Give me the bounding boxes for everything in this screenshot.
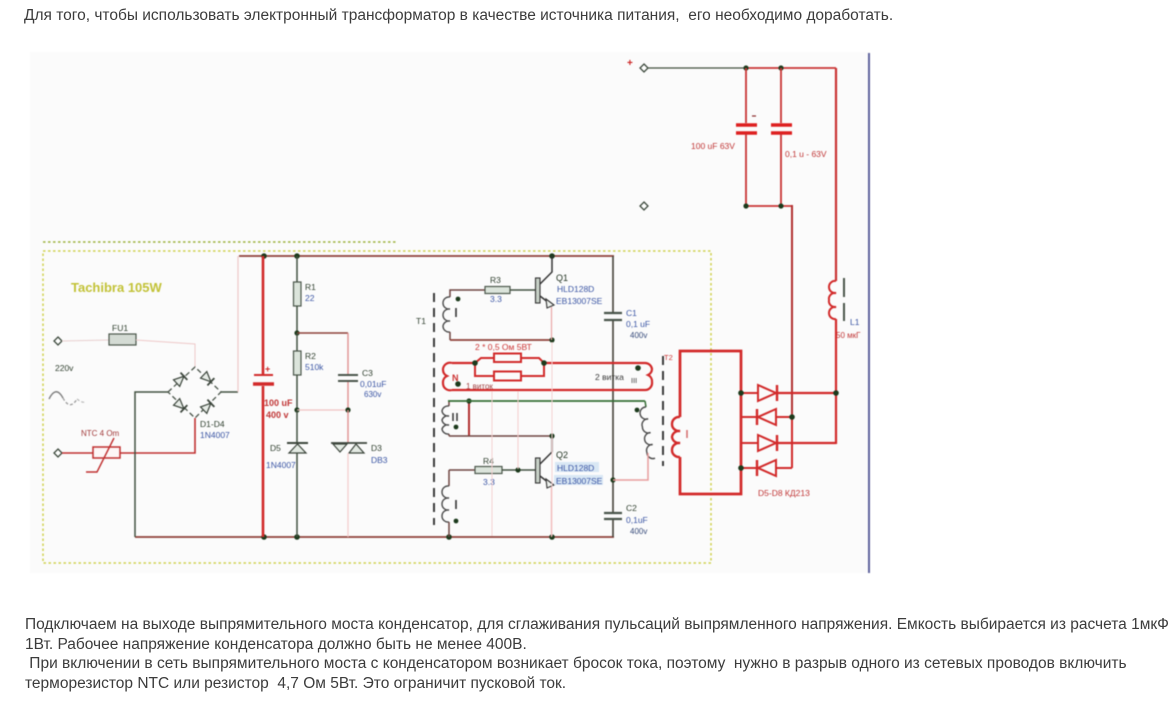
svg-text:D3: D3 [371, 443, 382, 453]
svg-text:R3: R3 [490, 275, 501, 285]
svg-text:0,1 u - 63V: 0,1 u - 63V [785, 149, 827, 159]
node junction dot [549, 433, 554, 438]
transformer T2 core (dashed) [662, 356, 664, 466]
wire connecting diode row1 to row3 [835, 393, 837, 444]
svg-text:T1: T1 [416, 316, 426, 326]
node junction dot [778, 65, 783, 70]
wire pink streak artifacts [347, 453, 349, 536]
node junction dot [515, 467, 520, 472]
diode D2 [200, 371, 214, 385]
AC sine symbol [49, 392, 63, 399]
image right border blue line [868, 53, 870, 573]
diode D3 (bridge) [173, 398, 187, 412]
node junction dot [743, 203, 748, 208]
transformer T1 core (dashed) [433, 293, 435, 525]
node junction dot [778, 203, 783, 208]
svg-text:100 uF 63V: 100 uF 63V [691, 141, 735, 151]
svg-text:Tachibra 105W: Tachibra 105W [71, 280, 163, 295]
node junction dot [549, 534, 555, 540]
svg-text:3.3: 3.3 [483, 477, 495, 487]
winding T1-III (Q2 base drive) [442, 470, 458, 537]
svg-text:D5: D5 [270, 443, 281, 453]
wire L1 down to diode row1 [835, 319, 837, 393]
svg-text:400v: 400v [630, 527, 647, 536]
svg-text:100 uF: 100 uF [264, 398, 293, 408]
wire plus rail down right side [835, 68, 837, 281]
transistor Q2 [536, 436, 604, 537]
node junction dot [294, 534, 300, 540]
yellow dashed enclosure box [43, 251, 711, 563]
green dashed segment (top) [43, 241, 397, 243]
node mains terminal 1 [54, 337, 62, 345]
node junction dot [294, 253, 300, 259]
svg-text:Q1: Q1 [556, 273, 568, 283]
node junction dot [789, 414, 795, 420]
svg-text:EB13007SE: EB13007SE [556, 476, 603, 486]
diode D7 [741, 435, 836, 451]
svg-text:630v: 630v [364, 390, 381, 399]
node junction dot [833, 390, 839, 396]
diode D8 [741, 460, 792, 476]
node junction dot [261, 534, 267, 540]
node junction dot [446, 534, 452, 540]
svg-text:EB13007SE: EB13007SE [556, 296, 603, 306]
svg-text:C3: C3 [362, 368, 373, 378]
svg-text:D5-D8 КД213: D5-D8 КД213 [758, 488, 810, 498]
node junction dot [345, 407, 350, 412]
svg-text:1 виток: 1 виток [466, 382, 493, 391]
node junction dot [738, 465, 744, 471]
resistor R2 [294, 333, 325, 410]
svg-text:FU1: FU1 [112, 323, 128, 333]
diode D1 [173, 373, 187, 387]
svg-text:NTC 4 Om: NTC 4 Om [81, 429, 120, 438]
winding T1-II [442, 401, 458, 436]
svg-text:D1-D4: D1-D4 [200, 419, 225, 429]
resistor R3 [485, 275, 535, 304]
wire fuse to bridge (faint) [136, 340, 195, 367]
svg-text:0,1uF: 0,1uF [626, 515, 648, 525]
wire green midpoint link [448, 400, 645, 402]
svg-text:50 мкГ: 50 мкГ [836, 331, 861, 340]
resistor R1 [294, 256, 317, 333]
svg-text:22: 22 [305, 293, 315, 303]
svg-text:DB3: DB3 [371, 455, 388, 465]
node junction dot [294, 330, 299, 335]
node minus output terminal [640, 202, 648, 210]
svg-text:N: N [452, 373, 459, 383]
wire T1-II bottom to Q2 collector node [449, 435, 552, 437]
svg-text:3.3: 3.3 [490, 294, 502, 304]
bridge rectifier D1-D4 [168, 367, 230, 440]
svg-text:III: III [631, 376, 637, 385]
svg-text:1N4007: 1N4007 [266, 460, 296, 470]
svg-text:+: + [627, 58, 633, 69]
inductor L1 [829, 278, 861, 340]
node junction dot [743, 65, 748, 70]
wire mains to NTC [62, 452, 93, 454]
svg-text:510k: 510k [305, 362, 324, 372]
node junction dot [261, 253, 267, 259]
diode D4 [200, 400, 214, 414]
svg-text:Q2: Q2 [556, 450, 568, 460]
node mains terminal 2 [54, 449, 62, 457]
node junction dot [466, 398, 471, 403]
wire top output rail (dark from terminal) [648, 67, 746, 69]
node junction dot [294, 407, 299, 412]
resistor 0,5 Om 5W (upper) [494, 354, 521, 363]
svg-text:HLD128D: HLD128D [557, 284, 594, 294]
wire top output rail red [746, 67, 836, 69]
resistor 0,5 Om 5W (lower) [494, 372, 521, 381]
winding T1-I (Q1 base drive) [443, 290, 485, 340]
wire bridge minus to bottom rail [135, 392, 168, 537]
winding T2 primary (slanted) [635, 401, 655, 460]
capacitor C2 (half-bridge bottom) [604, 503, 648, 537]
svg-text:+: + [265, 364, 270, 374]
diode D5 (1N4007 to rail) [266, 410, 308, 537]
capacitor 100uF 63V (output) [691, 68, 757, 206]
wire T1-I bottom to Q1 emitter node [450, 339, 552, 341]
wire red drop from green node [468, 401, 470, 436]
svg-text:2 * 0,5 Ом 5ВТ: 2 * 0,5 Ом 5ВТ [475, 342, 532, 352]
schematic image background [30, 52, 870, 573]
svg-text:0,1 uF: 0,1 uF [626, 319, 650, 329]
node junction dot [549, 337, 554, 342]
capacitor C 100uF 400v (bulk) [253, 256, 293, 537]
svg-text:R1: R1 [305, 282, 316, 292]
wire minus rail down to rectifier [791, 206, 792, 417]
diac D3 DB3 [331, 410, 388, 537]
node junction dot [738, 390, 744, 396]
wire pink riser to top rail [237, 256, 239, 392]
svg-text:220v: 220v [55, 363, 74, 373]
capacitor C3 [338, 333, 386, 410]
svg-text:C2: C2 [626, 503, 637, 513]
svg-text:1N4007: 1N4007 [200, 430, 230, 440]
wire rectifier minus column row2-row4 [791, 417, 793, 468]
wire bottom return rail [135, 536, 614, 538]
wire bridge plus towards top rail [221, 391, 238, 393]
svg-text:R2: R2 [305, 351, 316, 361]
svg-text:L1: L1 [850, 317, 860, 327]
transformer T2 secondary loop [672, 351, 741, 494]
svg-text:0,01uF: 0,01uF [360, 379, 386, 389]
node junction dot [610, 477, 615, 482]
transistor Q1 [536, 256, 603, 340]
wire pink link R2/C3 nodes [297, 409, 348, 411]
wire branch to C3 [297, 332, 348, 334]
wire NTC to bridge bottom [120, 418, 195, 453]
winding N left end coil [443, 363, 452, 391]
diode D6 [741, 409, 792, 425]
svg-text:Т2: Т2 [664, 353, 673, 362]
wire T2 primary bottom to capacitor midpoint [613, 453, 648, 480]
winding T1-N with sense resistors (thick bus) [443, 342, 652, 391]
resistor R4 [449, 456, 535, 487]
thermistor NTC 4 Om [81, 429, 120, 472]
capacitor C1 (half-bridge top) [604, 256, 650, 512]
wire mains to fuse (faint) [62, 340, 109, 341]
node junction dot [549, 253, 555, 259]
fuse FU1 [109, 323, 136, 345]
wire top supply rail [239, 255, 614, 257]
diode D5 [741, 385, 836, 401]
svg-text:400v: 400v [630, 331, 647, 340]
svg-text:HLD128D: HLD128D [557, 463, 594, 473]
capacitor 0,1u 63V (output) [771, 68, 827, 206]
svg-text:2 витка: 2 витка [595, 372, 624, 382]
svg-text:C1: C1 [626, 308, 637, 318]
winding III right end coil (2 turns) [645, 363, 652, 390]
svg-text:400 v: 400 v [266, 410, 289, 420]
wire joining output caps bottom [746, 205, 791, 207]
